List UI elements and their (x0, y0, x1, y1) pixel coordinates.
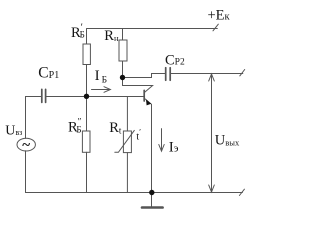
svg-text:R′Б: R′Б (71, 23, 85, 42)
svg-text:R″Б: R″Б (68, 117, 82, 136)
svg-text:Iэ: Iэ (169, 140, 179, 156)
svg-text:~: ~ (22, 138, 30, 154)
